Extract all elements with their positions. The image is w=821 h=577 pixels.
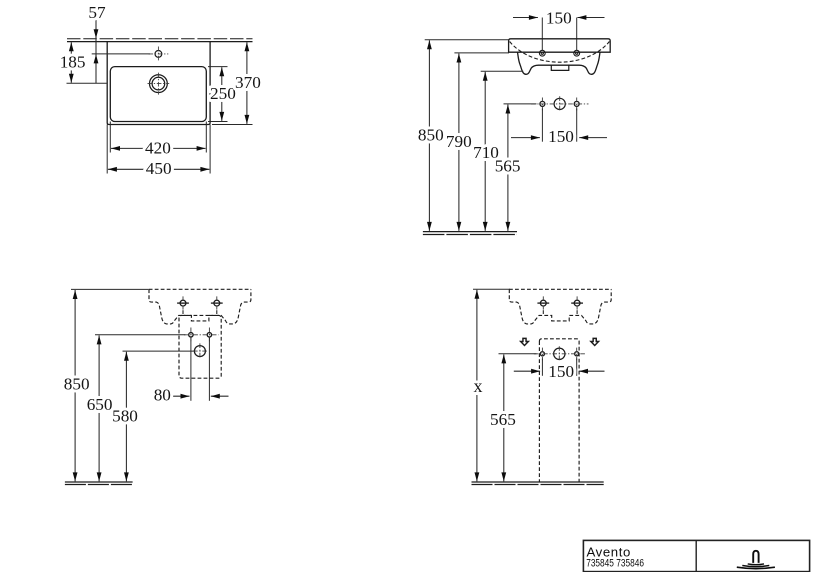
- dimension 80: [190, 337, 192, 401]
- rear small holes pair: [189, 333, 193, 337]
- svg-text:450: 450: [146, 159, 172, 178]
- svg-text:850: 850: [418, 125, 444, 144]
- dimension 790: [458, 54, 460, 231]
- dimension 650: [98, 335, 100, 481]
- fixing holes on rim: [539, 50, 545, 56]
- rear view basin dashed outline: [149, 289, 251, 324]
- overflow/drain hole (plan): [150, 75, 168, 93]
- svg-text:80: 80: [154, 386, 171, 405]
- bowl underside outline (front): [518, 52, 601, 74]
- rear fixing holes (pedestal view): [540, 300, 546, 306]
- dimension 450: [106, 125, 108, 174]
- svg-text:735845 735846: 735845 735846: [586, 558, 644, 570]
- rear drain crosshair hole: [194, 346, 205, 357]
- rear view (pedestal) dashed outline: [509, 289, 611, 324]
- dimension 150 (tap holes): [541, 109, 543, 142]
- extension lines for height dims: [425, 39, 509, 41]
- dimension 250: [221, 67, 223, 121]
- hidden inner bowl arc (dashed): [510, 42, 610, 63]
- dimension 850: [428, 40, 430, 231]
- mounting dashed box (rear): [179, 315, 221, 378]
- extension lines (pedestal view): [473, 288, 510, 290]
- dimension 710: [484, 72, 486, 231]
- dimension 57: [95, 20, 97, 84]
- title block frame: [583, 540, 809, 571]
- dimension 370: [246, 42, 248, 124]
- pedestal dashed outline: [539, 339, 579, 482]
- tap fitting holes group (front): [554, 98, 565, 109]
- svg-text:565: 565: [495, 156, 521, 175]
- drain recess box (front): [551, 65, 569, 70]
- title block divider: [695, 540, 697, 571]
- washbasin outer rim outline (plan): [107, 42, 210, 125]
- svg-text:150: 150: [546, 8, 572, 27]
- svg-text:580: 580: [112, 407, 138, 426]
- dimension x: [476, 290, 478, 482]
- dimension 150 (pedestal view): [541, 359, 543, 376]
- Villeroy & Boch logo mark: [753, 551, 758, 563]
- svg-text:150: 150: [548, 362, 574, 381]
- dimension 850 (rear): [74, 290, 76, 481]
- floor line (pedestal view): [472, 481, 604, 483]
- washbasin inner bowl outline (plan): [110, 67, 206, 122]
- extension lines (rear-left): [71, 288, 148, 290]
- svg-text:185: 185: [60, 52, 86, 71]
- dimension 420: [109, 122, 111, 153]
- svg-text:650: 650: [87, 395, 113, 414]
- wall section line (plan view): [67, 38, 253, 40]
- dimension 185: [70, 42, 72, 83]
- tap holes group (pedestal view): [554, 348, 565, 359]
- floor line (front elevation): [423, 231, 517, 233]
- svg-text:x: x: [474, 376, 483, 396]
- svg-text:57: 57: [88, 3, 106, 22]
- svg-text:150: 150: [548, 127, 574, 146]
- washbasin rim (front): [509, 39, 611, 52]
- svg-text:370: 370: [235, 73, 261, 92]
- svg-text:250: 250: [210, 84, 236, 103]
- rear fixing holes: [180, 300, 186, 306]
- dimension 565 (pedestal): [503, 354, 505, 481]
- tap hole (plan): [155, 51, 162, 58]
- svg-text:565: 565: [490, 410, 516, 429]
- svg-text:420: 420: [145, 138, 171, 157]
- svg-text:850: 850: [64, 374, 90, 393]
- dimension 565: [507, 105, 509, 231]
- dimension 150 (top, fixing holes): [513, 17, 538, 19]
- mounting direction arrows: [521, 338, 529, 345]
- svg-text:790: 790: [446, 132, 472, 151]
- floor line (rear-left): [65, 481, 133, 483]
- dimension 580: [125, 352, 127, 482]
